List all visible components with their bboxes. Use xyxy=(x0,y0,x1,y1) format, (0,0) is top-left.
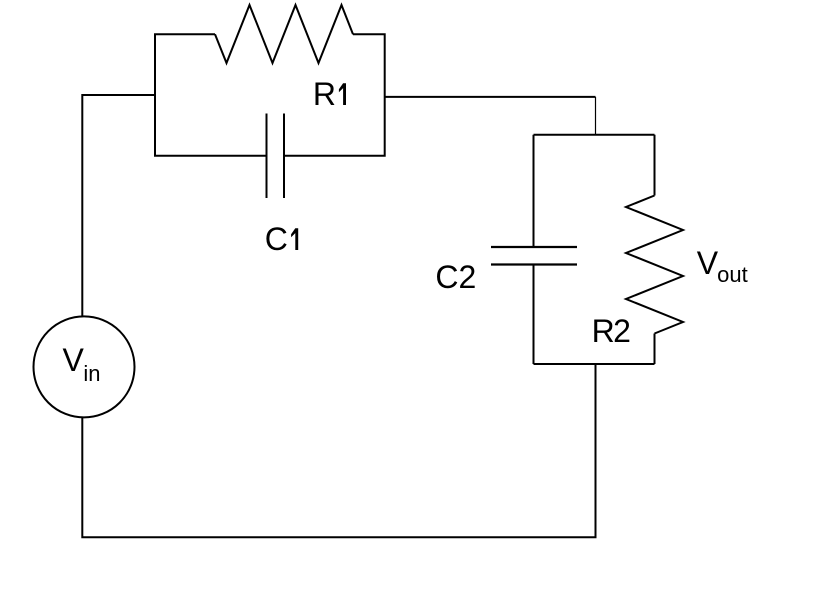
svg-text:C2: C2 xyxy=(435,259,476,295)
svg-text:V: V xyxy=(697,245,719,281)
svg-text:R: R xyxy=(313,76,336,112)
svg-text:V: V xyxy=(63,342,85,378)
svg-text:C: C xyxy=(265,221,288,257)
svg-text:in: in xyxy=(83,361,100,386)
svg-text:R2: R2 xyxy=(592,313,631,349)
svg-text:out: out xyxy=(717,262,748,287)
